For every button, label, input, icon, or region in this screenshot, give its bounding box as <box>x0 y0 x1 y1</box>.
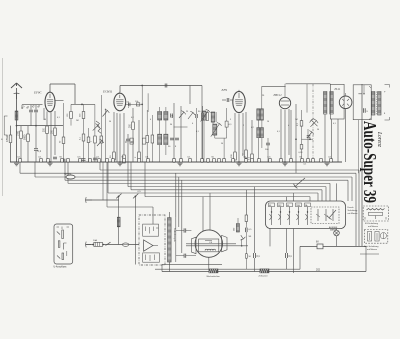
svg-text:2M: 2M <box>76 120 79 122</box>
svg-text:10k: 10k <box>135 101 138 103</box>
svg-text:50: 50 <box>221 143 223 145</box>
svg-text:0,1: 0,1 <box>333 123 336 125</box>
svg-text:1M: 1M <box>295 119 298 121</box>
svg-text:mit Masse: mit Masse <box>348 212 359 215</box>
svg-text:2: 2 <box>243 125 244 127</box>
svg-text:Batt-Schaltung: Batt-Schaltung <box>364 245 379 248</box>
svg-text:50: 50 <box>44 119 46 121</box>
svg-text:EBC11: EBC11 <box>273 93 283 97</box>
svg-text:0,1: 0,1 <box>277 131 280 133</box>
svg-text:ECH11: ECH11 <box>102 90 113 94</box>
svg-text:10A: 10A <box>93 239 97 242</box>
svg-text:6: 6 <box>128 107 129 109</box>
svg-text:0,1: 0,1 <box>38 150 42 153</box>
svg-text:0,2: 0,2 <box>131 117 134 119</box>
svg-text:10: 10 <box>267 121 269 123</box>
svg-text:0,1: 0,1 <box>196 131 199 133</box>
svg-text:mit Masse: mit Masse <box>367 248 378 251</box>
svg-text:Auto-Super 39: Auto-Super 39 <box>360 121 380 203</box>
svg-text:202: 202 <box>316 269 321 272</box>
svg-text:5000: 5000 <box>24 134 27 140</box>
svg-text:300: 300 <box>234 228 236 231</box>
svg-text:0,5MΩ: 0,5MΩ <box>6 135 9 142</box>
svg-text:EF9C: EF9C <box>33 91 42 95</box>
svg-text:100: 100 <box>130 141 135 144</box>
svg-text:Schaltung: Schaltung <box>348 209 359 212</box>
svg-text:Druck-: Druck- <box>348 206 355 209</box>
svg-text:4: 4 <box>288 125 289 127</box>
svg-text:4: 4 <box>150 119 151 121</box>
svg-text:Zerhacker: Zerhacker <box>259 275 268 277</box>
svg-text:25: 25 <box>186 111 188 113</box>
svg-text:5: 5 <box>230 119 231 121</box>
svg-text:EF9: EF9 <box>221 88 228 92</box>
svg-text:U-Anschluss: U-Anschluss <box>54 265 68 268</box>
svg-text:50: 50 <box>317 129 319 131</box>
svg-text:5Ω: 5Ω <box>249 236 252 238</box>
svg-text:EL11: EL11 <box>334 88 341 91</box>
svg-text:Zerhackerspule: Zerhackerspule <box>173 228 175 243</box>
svg-text:30: 30 <box>170 124 172 126</box>
svg-text:5k: 5k <box>127 101 129 103</box>
svg-text:Wechselrichter: Wechselrichter <box>207 275 221 278</box>
svg-text:mit Masse: mit Masse <box>368 225 379 228</box>
svg-text:6V-Schaltung: 6V-Schaltung <box>365 222 379 225</box>
svg-text:50: 50 <box>109 121 111 123</box>
svg-text:0,1: 0,1 <box>57 117 60 119</box>
svg-text:7DB: 7DB <box>296 205 301 207</box>
svg-text:Sperrkr.: Sperrkr. <box>64 173 72 176</box>
svg-text:0,2: 0,2 <box>251 127 254 129</box>
svg-text:6V: 6V <box>316 242 319 244</box>
svg-text:1MΩ: 1MΩ <box>17 131 20 136</box>
